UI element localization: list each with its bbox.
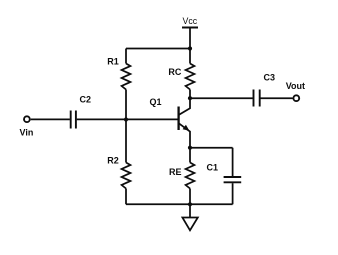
svg-text:Vout: Vout [286, 81, 305, 91]
svg-text:C2: C2 [80, 94, 92, 104]
svg-text:R2: R2 [107, 155, 119, 165]
svg-text:Vcc: Vcc [183, 16, 198, 26]
svg-text:RE: RE [169, 167, 182, 177]
svg-text:Vin: Vin [20, 128, 34, 138]
svg-text:Q1: Q1 [150, 97, 162, 107]
svg-text:RC: RC [168, 67, 181, 77]
svg-text:C3: C3 [264, 73, 276, 83]
svg-text:C1: C1 [207, 162, 219, 172]
svg-text:R1: R1 [107, 56, 119, 66]
